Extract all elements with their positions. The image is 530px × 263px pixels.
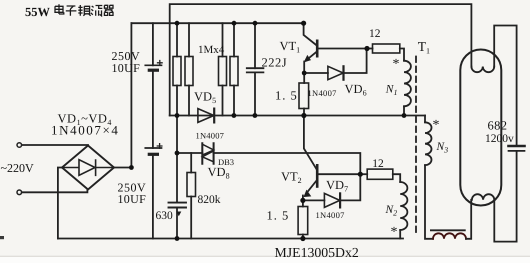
svg-text:1200v: 1200v xyxy=(485,133,514,145)
capacitor C1 plates xyxy=(145,64,161,66)
diode inside bridge xyxy=(62,160,114,176)
svg-text:1Mx4: 1Mx4 xyxy=(198,44,225,56)
wire AC neutral to bridge bottom vertex xyxy=(22,190,88,193)
transistor VT1 emitter arrow xyxy=(305,56,311,62)
resistor 1M #2 xyxy=(188,23,190,56)
resistor 12 #2 xyxy=(360,173,367,175)
svg-text:MJE13005Dx2: MJE13005Dx2 xyxy=(275,245,359,260)
svg-text:682: 682 xyxy=(488,119,508,133)
capacitor 682 1200V plates xyxy=(509,145,525,148)
svg-text:10UF: 10UF xyxy=(118,192,147,206)
resistor 1M #1 xyxy=(176,23,178,56)
transistor VT2 base bar xyxy=(316,165,319,186)
svg-text:12: 12 xyxy=(369,28,381,40)
transformer T1 core xyxy=(415,57,417,237)
diode VD7 1N4007 xyxy=(303,199,325,201)
diode VD6 1N4007 xyxy=(304,72,328,74)
winding N3 xyxy=(425,122,432,165)
resistor 12 #1 xyxy=(367,48,373,50)
svg-text:12: 12 xyxy=(372,158,384,170)
title CJK 电子镇流器 (drawn) xyxy=(55,4,113,16)
transistor VT2 base lead xyxy=(317,173,360,175)
bridge rectifier VD1-VD4 diamond xyxy=(62,146,114,190)
svg-text:222J: 222J xyxy=(262,56,288,70)
capacitor 630 plates xyxy=(169,203,187,208)
inductor lamp heater coil xyxy=(433,233,466,239)
transistor VT1 base bar xyxy=(316,41,319,56)
wire resonant cap to lamp bottom-right pin xyxy=(494,151,516,242)
node AC input terminal top xyxy=(17,143,22,148)
svg-text:820k: 820k xyxy=(198,194,221,206)
diode VD5 1N4007 xyxy=(198,109,214,123)
transistor VT2 collector xyxy=(304,116,317,170)
svg-text:1. 5: 1. 5 xyxy=(267,209,290,223)
svg-text:630: 630 xyxy=(156,210,174,222)
wire bridge positive to top bus riser xyxy=(114,23,131,167)
wire lamp top-right pin to resonant cap xyxy=(494,26,516,147)
capacitor C2 250V 10uF plates xyxy=(145,147,161,149)
transistor VT1 emitter xyxy=(308,52,317,59)
wire C1 to C2 xyxy=(152,71,154,148)
resistor 1M #3 xyxy=(222,23,224,56)
svg-text:*: * xyxy=(393,57,400,72)
svg-text:10UF: 10UF xyxy=(112,61,141,75)
transistor VT2 emitter xyxy=(308,181,316,192)
wire N3 to lamp bottom line xyxy=(425,165,433,239)
svg-text:1N4007×4: 1N4007×4 xyxy=(51,123,120,138)
wire mid-point to diac node xyxy=(176,116,178,154)
wire diac node xyxy=(177,152,202,154)
wire C2 to bottom bus xyxy=(152,155,154,239)
transistor VT1 base lead xyxy=(317,48,367,50)
wire bottom bus (DC-) xyxy=(58,238,403,240)
svg-text:55W: 55W xyxy=(25,5,51,19)
node AC input terminal bottom xyxy=(17,190,22,195)
capacitor 222J lead xyxy=(254,23,256,68)
wire coil to lamp bottom-left pin xyxy=(466,200,471,239)
svg-text:*: * xyxy=(433,118,440,133)
transistor VT1 collector xyxy=(304,23,317,45)
svg-text:1. 5: 1. 5 xyxy=(275,89,298,103)
capacitor 630 lead xyxy=(176,153,178,203)
capacitor C1 250V 10uF lead xyxy=(152,23,154,65)
winding N3 lead xyxy=(424,116,426,123)
wire outer loop: lamp top-left pin to mid-point riser xyxy=(170,4,472,115)
diac VD8 DB3 xyxy=(202,143,213,164)
capacitor 222J plates xyxy=(247,68,264,72)
wire AC live to bridge top vertex xyxy=(22,144,88,146)
svg-text:1N4007: 1N4007 xyxy=(316,210,345,220)
transistor VT2 emitter arrow xyxy=(304,191,310,197)
lamp top filament xyxy=(471,67,494,73)
wire top bus (DC+) xyxy=(131,22,303,24)
lamp bottom filament xyxy=(472,194,494,200)
wire diac to VT2 base xyxy=(214,153,361,174)
wire mid-point rail xyxy=(170,115,425,117)
winding N2 xyxy=(400,182,407,230)
lamp tube xyxy=(460,50,501,206)
wire bridge negative to bottom bus xyxy=(58,168,62,239)
inductor core line xyxy=(431,229,465,231)
resistor 1.5 #1 xyxy=(299,83,309,109)
title 55W xyxy=(25,5,51,19)
resistor 1M #4 xyxy=(233,23,235,56)
svg-text:*: * xyxy=(391,225,398,240)
svg-text:1N4007: 1N4007 xyxy=(308,88,337,98)
resistor 820k xyxy=(190,153,192,173)
svg-text:1N4007: 1N4007 xyxy=(196,130,225,140)
winding N1 xyxy=(404,61,411,107)
svg-text:~220V: ~220V xyxy=(1,161,34,175)
resistor 1.5 #2 xyxy=(298,207,308,235)
